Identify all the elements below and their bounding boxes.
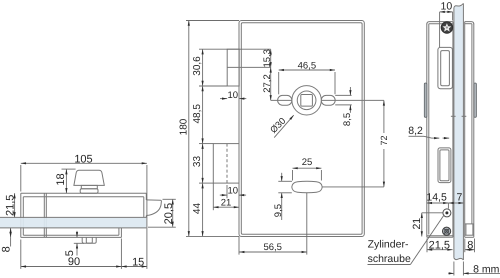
dim 5 [76,231,78,238]
dim 72 [383,100,385,133]
liner end ticks on glass [451,115,456,117]
svg-text:21,5: 21,5 [429,240,450,252]
lower plate inner bottom line [23,234,119,236]
svg-text:9,5: 9,5 [273,204,284,217]
svg-text:25: 25 [302,157,313,168]
gasket strip left [424,83,427,117]
mounting tab upper (left edge) [227,49,239,86]
svg-text:180: 180 [179,118,190,135]
svg-text:15: 15 [132,256,144,268]
dim 46,5 [279,69,335,71]
dim 8 (left) [10,228,12,238]
spindle hub outer circle [292,86,321,115]
dim 14,5 / 7 [427,202,449,204]
dim 18 [65,169,67,193]
gasket strip right [474,83,477,117]
svg-text:15,3: 15,3 [262,49,273,68]
svg-text:56,5: 56,5 [263,242,282,253]
svg-text:33: 33 [192,156,203,168]
dim 9,5 [281,173,283,182]
lower plate right end [120,228,122,238]
tab midline / extension to 27.2 dim [227,66,271,68]
counter plate inner line [471,24,473,224]
svg-text:46,5: 46,5 [298,60,317,71]
spindle hub inner circle [297,91,316,110]
dim 8,5 [349,87,351,95]
svg-text:48,5: 48,5 [192,104,203,124]
left stacked dims line (30.6/48.5/33/44) [202,49,204,86]
lock case outer body [239,21,364,237]
counter plate left edge [464,22,466,238]
dim 25 [293,167,322,169]
lower clamp plate bottom [21,236,122,238]
dim 15,3 / 27,2 vertical [270,49,272,67]
strike plate top edge [427,22,453,25]
body inner left line [22,197,24,235]
svg-text:10: 10 [441,1,453,13]
bottom screw (threaded end) [443,227,451,235]
keeper box lower outer [438,148,451,183]
keeper box upper inner [441,51,450,86]
dim 10 (lower tab, from dashed line) [220,194,227,196]
svg-text:21: 21 [221,197,232,208]
dim 10 (top) [440,11,453,13]
dim 105 [21,162,147,164]
dim 10 (upper tab) [220,98,227,100]
top screw (phillips) [441,22,452,33]
svg-text:18: 18 [55,173,67,185]
dim 21,5 (bottom) [427,249,453,251]
body inner right line [143,197,145,218]
svg-text:21: 21 [411,218,423,230]
knob neck [81,185,97,188]
body left edge [20,193,22,237]
keeper box lower inner [440,150,449,181]
svg-text:schraube: schraube [368,253,411,265]
latch bolt [146,200,161,216]
end cap joint lines [43,193,45,237]
ext line tab top to 15.3 [227,48,271,50]
svg-text:21,5: 21,5 [5,195,17,216]
svg-text:90: 90 [68,256,80,268]
extension line bottom (case bottom to 180/44) [186,235,239,237]
glazing screw tab (bottom) [82,237,96,243]
svg-text:Zylinder-: Zylinder- [368,239,409,251]
svg-text:8: 8 [467,240,473,252]
strike plate bottom lines [427,235,453,237]
svg-text:105: 105 [74,154,92,166]
dim 8 (bottom right) [465,249,475,251]
svg-text:44: 44 [192,203,203,215]
strike plate right edge (at glass) [452,22,454,238]
spindle hub left ear [278,95,292,105]
cylinder screw slot (stadium) [292,181,322,193]
counter plate clamp block lines [465,223,474,225]
dim 20,5 [172,199,174,227]
svg-text:10: 10 [228,90,239,101]
svg-text:20,5: 20,5 [163,203,175,224]
dim 21 (right view) [421,213,423,237]
svg-text:27,2: 27,2 [262,74,273,93]
strike plate inner left line [428,24,430,235]
svg-text:8 mm: 8 mm [473,264,500,276]
knob dome [74,170,104,185]
ear slot extension lines (8.5 dim refs) [335,94,351,96]
hub center line horizontal [271,99,384,101]
glazing screw notch [86,237,92,243]
counter plate right edge [473,24,475,238]
extension lines for stacked dims [199,48,227,50]
dim 15 [121,266,146,268]
glass pane (side view) [0,218,146,228]
lock case inner contour [241,23,362,234]
body top edge [21,192,147,194]
extension line top (case top to 180) [186,20,239,22]
keeper box upper outer [438,47,453,88]
knob base [80,189,98,193]
dim 180 vertical line [188,21,190,237]
svg-text:30,6: 30,6 [192,56,203,76]
svg-text:8: 8 [1,246,13,252]
svg-text:10: 10 [228,186,239,197]
strike plate inner top line [429,23,453,25]
dim 21 (lower tab) [213,206,239,208]
ext line stadium to 72 [322,186,384,188]
svg-text:8,2: 8,2 [408,125,423,137]
svg-text:7: 7 [456,191,462,203]
body right edge [145,193,147,200]
svg-text:14,5: 14,5 [426,191,447,203]
ext line for 21 dim [212,183,214,210]
spindle square hole [301,95,313,107]
glass pane (right view) [454,6,463,259]
svg-text:8,5: 8,5 [342,113,353,126]
body inner top line [23,196,144,198]
dim 8 mm (glass) [448,272,454,274]
hidden edge dashed line in lower tab [226,144,228,184]
spindle hub right ear [321,95,335,105]
svg-text:72: 72 [379,135,389,145]
counter plate top edge [465,22,474,25]
strike plate left edge [426,24,428,238]
dim Ø30 leader [274,115,294,137]
dim 56,5 [239,251,307,253]
dim 90 [21,266,122,268]
mounting tab lower (left edge) [213,144,239,184]
middle screw (cylinder screw) [443,209,451,217]
dim 21,5 [14,193,16,217]
